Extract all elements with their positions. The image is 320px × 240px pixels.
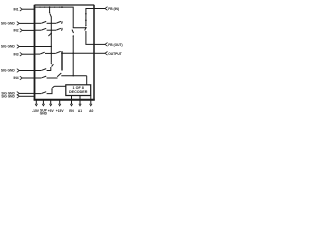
svg-text:IN1: IN1 (13, 7, 18, 11)
svg-text:SIG GND: SIG GND (1, 22, 16, 26)
svg-text:OUTPUT: OUTPUT (108, 52, 122, 56)
svg-text:SIG GND: SIG GND (1, 69, 16, 73)
svg-text:SIG GND: SIG GND (1, 95, 15, 99)
svg-text:+5V: +5V (48, 109, 55, 113)
svg-text:A0: A0 (89, 109, 93, 113)
svg-text:SIG GND: SIG GND (1, 45, 16, 49)
svg-text:IN4: IN4 (13, 76, 18, 80)
svg-text:IN3: IN3 (13, 52, 18, 56)
svg-text:IN2: IN2 (13, 29, 18, 33)
svg-text:FB (IN): FB (IN) (108, 7, 119, 11)
svg-text:GND: GND (40, 112, 48, 116)
svg-text:+15V: +15V (56, 109, 65, 113)
svg-text:DECODER: DECODER (69, 90, 88, 94)
svg-text:EN: EN (69, 109, 74, 113)
svg-text:FB (OUT): FB (OUT) (108, 43, 122, 47)
svg-text:-15V: -15V (32, 109, 40, 113)
svg-text:A1: A1 (78, 109, 82, 113)
